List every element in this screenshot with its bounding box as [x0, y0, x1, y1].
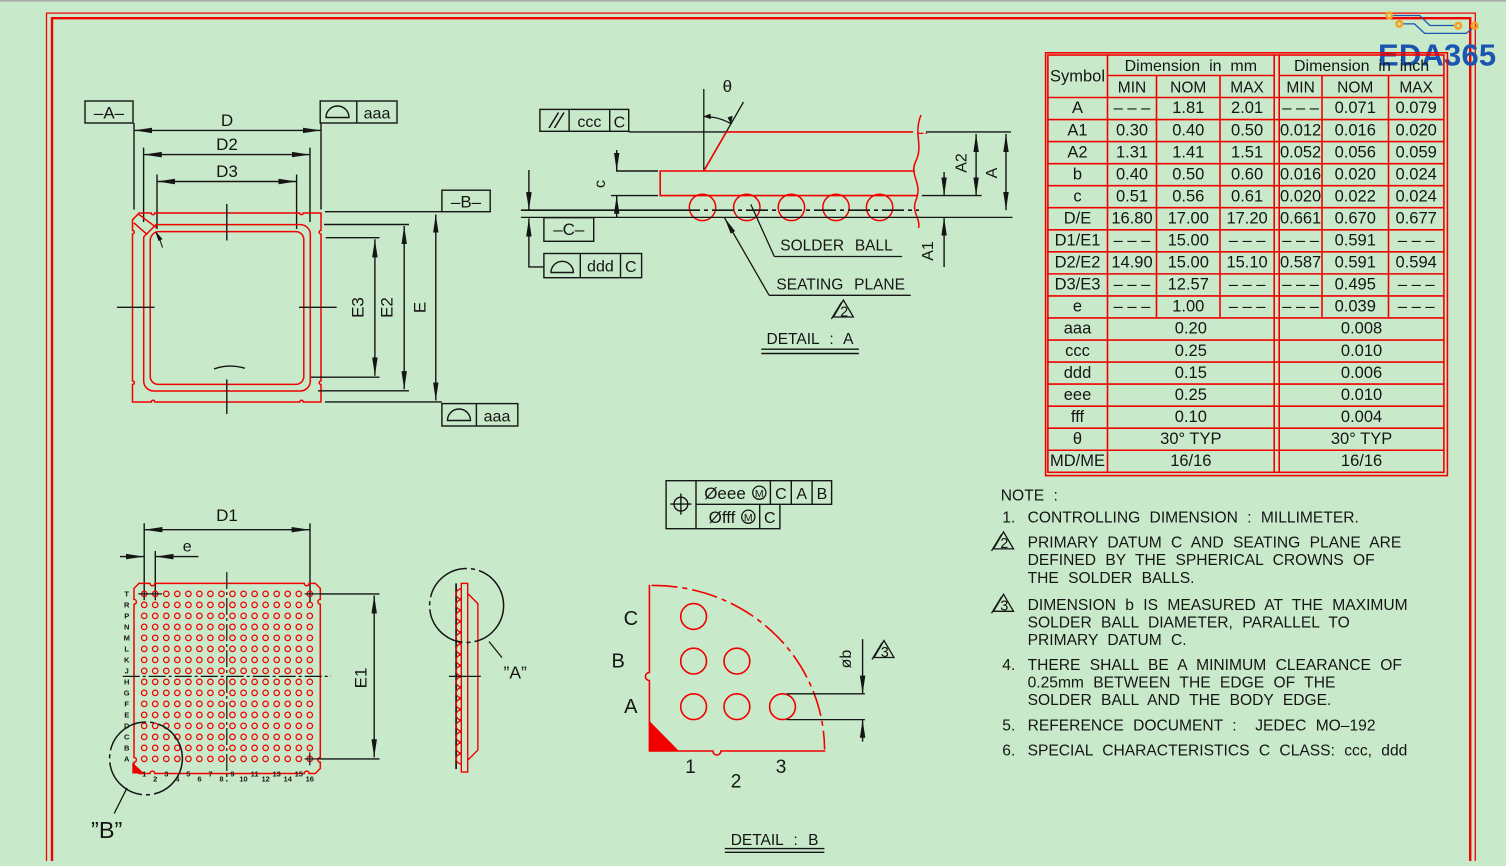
svg-text:5: 5	[186, 770, 190, 779]
svg-text:–A–: –A–	[94, 104, 125, 123]
FCF cell dividers	[695, 481, 697, 529]
note flag triangle 2	[833, 300, 853, 317]
note flag triangle 3	[874, 641, 894, 658]
svg-text:5.: 5.	[1002, 717, 1015, 734]
svg-text:0.30: 0.30	[1116, 121, 1148, 139]
svg-text:D1/E1: D1/E1	[1055, 232, 1101, 250]
svg-text:1.31: 1.31	[1116, 143, 1148, 161]
svg-text:ddd: ddd	[1064, 364, 1092, 382]
SOLDER BALL label	[751, 204, 775, 256]
svg-text:2: 2	[731, 772, 742, 793]
svg-text:16/16: 16/16	[1341, 452, 1382, 470]
profile centerline tick	[449, 675, 481, 677]
svg-text:16/16: 16/16	[1170, 452, 1211, 470]
svg-text:Øeee: Øeee	[704, 484, 746, 503]
svg-text:– – –: – – –	[1114, 276, 1152, 294]
svg-text:D: D	[221, 111, 233, 130]
fiducial crosshairs	[138, 593, 162, 595]
svg-text:0.010: 0.010	[1341, 342, 1382, 360]
svg-text:– – –: – – –	[1282, 99, 1320, 117]
detail B arc boundary	[652, 585, 825, 749]
package inner outline	[150, 232, 304, 385]
detail B A1 triangle	[650, 723, 677, 751]
BGA body outline (bottom view)	[134, 583, 320, 773]
svg-text:9: 9	[230, 770, 234, 779]
svg-text:0.40: 0.40	[1116, 165, 1148, 183]
svg-text:MD/ME: MD/ME	[1050, 452, 1105, 470]
svg-text:D2: D2	[216, 135, 238, 154]
svg-text:0.25: 0.25	[1175, 386, 1207, 404]
svg-text:1.00: 1.00	[1172, 298, 1204, 316]
profile FCF aaa (top)	[320, 101, 397, 123]
EDA365 logo traces	[1393, 16, 1454, 26]
svg-text:PRIMARY DATUM C AND SEATING PL: PRIMARY DATUM C AND SEATING PLANE ARE	[1028, 534, 1402, 551]
svg-text:REFERENCE DOCUMENT : JEDEC MO: REFERENCE DOCUMENT : JEDEC MO–192	[1028, 717, 1376, 734]
svg-text:THERE SHALL BE A MINIMUM CLEAR: THERE SHALL BE A MINIMUM CLEARANCE OF	[1028, 657, 1402, 674]
detail circle B	[110, 722, 183, 795]
svg-text:J: J	[125, 667, 129, 676]
svg-text:SOLDER BALL: SOLDER BALL	[780, 238, 893, 255]
svg-text:0.059: 0.059	[1396, 143, 1437, 161]
svg-text:aaa: aaa	[484, 409, 511, 426]
svg-text:E: E	[124, 711, 129, 720]
svg-text:0.15: 0.15	[1175, 364, 1207, 382]
svg-text:– – –: – – –	[1114, 232, 1152, 250]
svg-text:E3: E3	[349, 297, 368, 318]
svg-text:3: 3	[881, 645, 889, 661]
svg-text:6.: 6.	[1002, 742, 1015, 759]
svg-text:Dimension in inch: Dimension in inch	[1294, 58, 1429, 75]
profile FCF aaa (bottom)	[442, 404, 518, 426]
theta arc	[704, 117, 731, 124]
svg-text:N: N	[124, 623, 129, 632]
svg-text:Øfff: Øfff	[709, 508, 736, 527]
svg-text:0.10: 0.10	[1175, 408, 1207, 426]
svg-text:A1: A1	[1067, 121, 1087, 139]
svg-text:DIMENSION b IS MEASURED AT THE: DIMENSION b IS MEASURED AT THE MAXIMUM	[1028, 597, 1408, 614]
corner chamfer diagonals	[139, 214, 157, 227]
svg-text:M: M	[755, 488, 764, 500]
svg-text:0.60: 0.60	[1231, 165, 1263, 183]
svg-text:P: P	[124, 612, 129, 621]
svg-text:0.495: 0.495	[1335, 276, 1376, 294]
svg-text:aaa: aaa	[1064, 320, 1092, 338]
svg-text:A: A	[796, 486, 807, 503]
svg-text:1: 1	[142, 770, 146, 779]
dim E3	[326, 237, 380, 239]
svg-text:R: R	[124, 601, 130, 610]
break squiggle	[914, 115, 921, 228]
svg-text:– – –: – – –	[1398, 232, 1436, 250]
svg-text:θ: θ	[723, 77, 732, 96]
datum box -C-	[544, 218, 594, 242]
svg-text:0.20: 0.20	[1175, 320, 1207, 338]
svg-text:0.25: 0.25	[1175, 342, 1207, 360]
top surface ext line	[629, 131, 727, 133]
svg-text:0.020: 0.020	[1396, 121, 1437, 139]
dim D2	[143, 148, 145, 222]
profile balls	[456, 589, 461, 764]
datum box -A-	[85, 101, 133, 123]
svg-text:fff: fff	[1071, 408, 1085, 426]
svg-text:c: c	[592, 180, 609, 188]
svg-text:0.004: 0.004	[1341, 408, 1382, 426]
dim E2	[324, 224, 409, 226]
svg-text:15: 15	[295, 770, 303, 779]
dim D3	[156, 175, 158, 230]
svg-text:E1: E1	[351, 668, 370, 689]
svg-text:ddd: ddd	[587, 259, 614, 276]
package mid outline	[144, 225, 311, 391]
svg-text:0.006: 0.006	[1341, 364, 1382, 382]
svg-text:0.40: 0.40	[1172, 121, 1204, 139]
svg-text:D1: D1	[216, 506, 238, 525]
svg-text:– – –: – – –	[1282, 276, 1320, 294]
svg-text:0.020: 0.020	[1335, 165, 1376, 183]
detail circle A	[430, 569, 504, 643]
svg-text:12: 12	[261, 775, 269, 784]
theta vertical line	[703, 89, 705, 171]
svg-text:A1: A1	[920, 241, 937, 261]
FCF position frame outline	[666, 481, 832, 529]
svg-text:ccc: ccc	[1065, 342, 1090, 360]
svg-text:6: 6	[197, 775, 201, 784]
svg-text:0.25mm BETWEEN THE EDGE OF THE: 0.25mm BETWEEN THE EDGE OF THE	[1028, 675, 1336, 692]
bottom small arc mark	[214, 366, 245, 369]
substrate bar	[660, 171, 918, 196]
detail B balls	[681, 604, 707, 630]
svg-text:1.81: 1.81	[1172, 99, 1204, 117]
centerline ticks (top view)	[226, 204, 228, 241]
svg-text:– – –: – – –	[1229, 232, 1267, 250]
svg-text:C: C	[775, 486, 787, 503]
svg-text:30° TYP: 30° TYP	[1160, 430, 1221, 448]
profile molded body	[468, 594, 478, 761]
svg-text:2: 2	[153, 775, 157, 784]
svg-text:DETAIL : B: DETAIL : B	[731, 832, 819, 849]
svg-text:NOM: NOM	[1170, 79, 1206, 96]
svg-text:”B”: ”B”	[91, 817, 122, 843]
dim e	[154, 551, 156, 600]
svg-text:2: 2	[1000, 536, 1008, 552]
table horizontals	[1108, 75, 1275, 77]
svg-text:NOM: NOM	[1337, 79, 1373, 96]
svg-text:0.50: 0.50	[1172, 165, 1204, 183]
dim c	[616, 170, 658, 172]
svg-text:”A”: ”A”	[504, 662, 528, 682]
svg-text:e: e	[183, 539, 192, 556]
package body (side) top surface	[726, 131, 913, 133]
svg-text:0.587: 0.587	[1280, 254, 1321, 272]
svg-text:ccc: ccc	[577, 114, 601, 131]
svg-text:B: B	[817, 486, 828, 503]
bottom ext line to FCF	[325, 401, 442, 403]
svg-text:D2/E2: D2/E2	[1055, 254, 1101, 272]
svg-text:17.20: 17.20	[1226, 209, 1267, 227]
svg-text:1.: 1.	[1002, 509, 1015, 526]
svg-text:0.022: 0.022	[1335, 187, 1376, 205]
svg-text:0.056: 0.056	[1335, 143, 1376, 161]
svg-text:H: H	[124, 678, 129, 687]
svg-text:B: B	[612, 651, 625, 673]
svg-text:K: K	[124, 656, 130, 665]
dim ob arrows	[862, 639, 864, 694]
svg-text:– – –: – – –	[1229, 298, 1267, 316]
svg-text:Symbol: Symbol	[1050, 68, 1105, 86]
svg-text:0.008: 0.008	[1341, 320, 1382, 338]
A1 corner triangle (bottom view)	[133, 764, 143, 774]
svg-text:THE SOLDER BALLS.: THE SOLDER BALLS.	[1028, 570, 1195, 587]
svg-text:14.90: 14.90	[1111, 254, 1152, 272]
svg-text:3: 3	[164, 770, 168, 779]
svg-text:0.012: 0.012	[1280, 121, 1321, 139]
SEATING PLANE label	[725, 218, 770, 295]
right ext lines	[926, 131, 1011, 133]
svg-text:3: 3	[1000, 599, 1008, 615]
svg-text:0.677: 0.677	[1396, 209, 1437, 227]
svg-text:B: B	[124, 744, 130, 753]
svg-text:10: 10	[239, 775, 247, 784]
table mm/inch double divider	[1273, 55, 1275, 472]
svg-text:A2: A2	[954, 153, 971, 173]
svg-text:SOLDER BALL AND THE BODY EDGE.: SOLDER BALL AND THE BODY EDGE.	[1028, 692, 1332, 709]
svg-text:– – –: – – –	[1282, 232, 1320, 250]
svg-text:0.61: 0.61	[1231, 187, 1263, 205]
svg-text:b: b	[1073, 165, 1082, 183]
svg-text:16.80: 16.80	[1111, 209, 1152, 227]
dim ob ext lines	[787, 693, 865, 695]
grey window strip	[0, 0, 1506, 2]
svg-text:– – –: – – –	[1114, 298, 1152, 316]
svg-text:θ: θ	[1073, 430, 1082, 448]
position symbol	[674, 497, 688, 511]
seating plane line	[521, 216, 1013, 218]
svg-text:0.661: 0.661	[1280, 209, 1321, 227]
svg-text:– – –: – – –	[1229, 276, 1267, 294]
svg-text:30° TYP: 30° TYP	[1331, 430, 1392, 448]
svg-text:0.016: 0.016	[1335, 121, 1376, 139]
svg-text:–B–: –B–	[451, 193, 482, 212]
svg-text:D/E: D/E	[1064, 209, 1092, 227]
svg-text:MIN: MIN	[1286, 79, 1314, 96]
svg-text:0.071: 0.071	[1335, 99, 1376, 117]
svg-text:12.57: 12.57	[1168, 276, 1209, 294]
svg-text:17.00: 17.00	[1168, 209, 1209, 227]
svg-text:D3: D3	[216, 162, 238, 181]
profile substrate bar	[461, 583, 467, 772]
svg-text:0.594: 0.594	[1396, 254, 1437, 272]
svg-text:G: G	[124, 689, 130, 698]
svg-text:eee: eee	[1064, 386, 1092, 404]
svg-text:F: F	[124, 700, 129, 709]
svg-text:PRIMARY DATUM C.: PRIMARY DATUM C.	[1028, 632, 1187, 649]
svg-text:0.591: 0.591	[1335, 254, 1376, 272]
svg-text:MAX: MAX	[1399, 79, 1433, 96]
solder ball grid 16x16	[141, 591, 312, 762]
FCF profile ddd C	[544, 254, 642, 278]
table verticals	[1107, 55, 1109, 472]
svg-text:0.024: 0.024	[1396, 187, 1437, 205]
svg-text:4.: 4.	[1002, 657, 1015, 674]
package outer edge (top view)	[133, 213, 322, 402]
svg-text:D3/E3: D3/E3	[1055, 276, 1101, 294]
svg-text:c: c	[1073, 187, 1081, 205]
svg-text:SOLDER BALL DIAMETER, PARALLEL: SOLDER BALL DIAMETER, PARALLEL TO	[1028, 614, 1350, 631]
svg-text:15.00: 15.00	[1168, 232, 1209, 250]
svg-text:A2: A2	[1067, 143, 1087, 161]
datum C leader arrows	[528, 170, 530, 210]
svg-text:C: C	[624, 608, 638, 630]
svg-text:A: A	[984, 167, 1001, 178]
dim A1	[943, 172, 945, 196]
svg-text:C: C	[764, 510, 776, 527]
svg-text:0.052: 0.052	[1280, 143, 1321, 161]
svg-text:M: M	[124, 634, 130, 643]
svg-text:E: E	[411, 302, 430, 313]
svg-text:16: 16	[306, 775, 314, 784]
svg-text:Dimension in mm: Dimension in mm	[1125, 58, 1257, 75]
svg-text:– – –: – – –	[1398, 276, 1436, 294]
svg-text:8: 8	[219, 775, 223, 784]
dimension table outer border	[1046, 53, 1448, 476]
svg-text:0.591: 0.591	[1335, 232, 1376, 250]
svg-text:MIN: MIN	[1118, 79, 1146, 96]
svg-text:MAX: MAX	[1230, 79, 1264, 96]
svg-text:0.020: 0.020	[1280, 187, 1321, 205]
dim A	[1005, 134, 1007, 210]
svg-text:C: C	[124, 733, 130, 742]
note flag triangle 2	[994, 532, 1014, 549]
dim E	[435, 215, 437, 401]
svg-text:SEATING PLANE: SEATING PLANE	[776, 277, 905, 294]
svg-text:aaa: aaa	[364, 106, 391, 123]
svg-text:3: 3	[776, 757, 787, 778]
seating plane datum line	[521, 209, 678, 211]
svg-text:L: L	[124, 645, 129, 654]
svg-text:C: C	[614, 115, 626, 132]
profile substrate edge line	[455, 583, 457, 769]
svg-text:0.51: 0.51	[1116, 187, 1148, 205]
dim E1	[319, 593, 379, 595]
theta slant line	[704, 102, 744, 171]
svg-text:0.010: 0.010	[1341, 386, 1382, 404]
svg-text:1.41: 1.41	[1172, 143, 1204, 161]
dim D1	[143, 523, 145, 600]
svg-text:14: 14	[284, 775, 293, 784]
svg-text:2.01: 2.01	[1231, 99, 1263, 117]
svg-text:M: M	[744, 512, 753, 524]
grid centerlines	[123, 675, 331, 677]
svg-text:0.50: 0.50	[1231, 121, 1263, 139]
svg-text:1: 1	[685, 757, 696, 778]
svg-text:CONTROLLING DIMENSION : MILLIM: CONTROLLING DIMENSION : MILLIMETER.	[1028, 509, 1359, 526]
package slant edge	[704, 132, 727, 171]
svg-text:15.00: 15.00	[1168, 254, 1209, 272]
svg-text:DEFINED BY THE SPHERICAL CROWN: DEFINED BY THE SPHERICAL CROWNS OF	[1028, 552, 1375, 569]
dim D	[133, 123, 135, 210]
svg-text:A: A	[124, 755, 130, 764]
svg-text:T: T	[124, 590, 129, 599]
svg-text:E2: E2	[378, 297, 397, 318]
svg-text:0.56: 0.56	[1172, 187, 1204, 205]
detail B corner outline	[645, 585, 825, 755]
svg-text:13: 13	[273, 770, 281, 779]
svg-text:– – –: – – –	[1114, 99, 1152, 117]
svg-text:0.039: 0.039	[1335, 298, 1376, 316]
datum box -B-	[325, 211, 442, 213]
svg-text:7: 7	[208, 770, 212, 779]
svg-text:15.10: 15.10	[1226, 254, 1267, 272]
svg-text:1.51: 1.51	[1231, 143, 1263, 161]
svg-text:11: 11	[251, 770, 259, 779]
pin1 arrow	[156, 232, 163, 241]
svg-text:–C–: –C–	[553, 220, 585, 239]
svg-text:0.670: 0.670	[1335, 209, 1376, 227]
EDA365 logo pads	[1386, 13, 1392, 19]
note flag triangle 3	[994, 594, 1014, 611]
svg-text:– – –: – – –	[1282, 298, 1320, 316]
svg-text:øb: øb	[838, 650, 855, 669]
solder balls (side view)	[689, 194, 715, 220]
svg-text:0.016: 0.016	[1280, 165, 1321, 183]
svg-text:NOTE :: NOTE :	[1001, 487, 1058, 504]
svg-text:SPECIAL CHARACTERISTICS C CLAS: SPECIAL CHARACTERISTICS C CLASS: ccc, dd…	[1028, 742, 1408, 759]
svg-text:0.024: 0.024	[1396, 165, 1437, 183]
svg-text:A: A	[1072, 99, 1083, 117]
svg-text:– – –: – – –	[1398, 298, 1436, 316]
svg-text:C: C	[625, 259, 637, 276]
svg-text:e: e	[1073, 298, 1082, 316]
svg-text:A: A	[624, 696, 638, 718]
FCF // ccc C	[540, 109, 629, 131]
svg-text:DETAIL : A: DETAIL : A	[767, 331, 855, 348]
dim A2	[975, 134, 977, 196]
svg-text:2: 2	[840, 304, 848, 320]
svg-text:0.079: 0.079	[1396, 99, 1437, 117]
